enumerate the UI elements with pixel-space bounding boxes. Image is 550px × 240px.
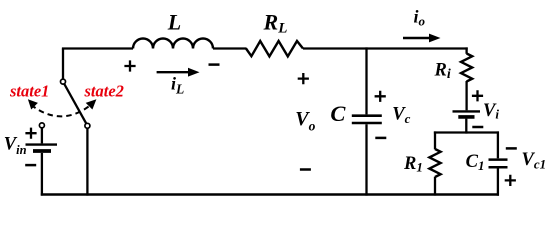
svg-text:Ri: Ri bbox=[434, 61, 451, 83]
label - V_in bbox=[25, 164, 36, 167]
resistor R_1 bbox=[429, 149, 440, 177]
svg-text:R1: R1 bbox=[403, 154, 423, 174]
wire bottom rail bbox=[41, 193, 499, 196]
switch state2 contact circle bbox=[85, 123, 90, 128]
switch common contact circle bbox=[61, 79, 66, 84]
svg-text:C1: C1 bbox=[466, 152, 485, 173]
resistor R_i bbox=[461, 54, 472, 82]
label + V_i bbox=[472, 90, 483, 101]
arrowhead toward state2 bbox=[86, 99, 97, 109]
arrowhead toward state1 bbox=[28, 99, 38, 109]
wire top rail right bbox=[303, 47, 468, 49]
svg-text:Vc1: Vc1 bbox=[522, 150, 547, 172]
label - V_i bbox=[472, 126, 483, 129]
svg-text:Vin: Vin bbox=[4, 135, 27, 158]
battery V_i negative plate bbox=[458, 115, 474, 119]
wire capacitor C branch bottom bbox=[365, 124, 367, 195]
battery V_in negative plate bbox=[33, 149, 51, 153]
label - V_c bbox=[375, 137, 386, 140]
svg-text:RL: RL bbox=[263, 10, 288, 37]
svg-text:state1: state1 bbox=[9, 81, 49, 100]
wire sub rail bbox=[434, 131, 499, 133]
capacitor C_1 bottom plate bbox=[489, 166, 508, 169]
wire capacitor C branch top bbox=[365, 47, 367, 114]
capacitor C bottom plate bbox=[352, 122, 382, 125]
wire state2 contact to bottom rail bbox=[86, 128, 88, 195]
wire top rail corner down to R_i bbox=[465, 47, 467, 53]
label + inductor polarity bbox=[124, 60, 135, 71]
wire state1 contact to battery bbox=[41, 128, 43, 144]
label + V_c1 bbox=[505, 175, 516, 186]
dashed arc switch motion bbox=[31, 105, 91, 117]
wire inductor to R_L bbox=[213, 47, 247, 49]
capacitor C top plate bbox=[352, 114, 382, 117]
wire capacitor C_1 to bottom rail bbox=[497, 169, 499, 196]
switch blade bbox=[64, 84, 86, 123]
wire top rail left bbox=[62, 47, 133, 49]
svg-text:state2: state2 bbox=[84, 81, 124, 100]
svg-text:Vc: Vc bbox=[392, 105, 410, 127]
label - V_o bbox=[300, 168, 311, 171]
label - V_c1 bbox=[506, 147, 517, 150]
label - inductor polarity bbox=[209, 63, 220, 66]
switch state1 contact circle bbox=[39, 123, 44, 128]
wire R_1 to bottom rail bbox=[434, 177, 436, 196]
svg-text:Vi: Vi bbox=[483, 101, 499, 122]
battery V_in positive plate bbox=[26, 143, 58, 145]
capacitor C_1 top plate bbox=[489, 158, 508, 161]
arrow i_L bbox=[157, 68, 200, 77]
inductor L bbox=[133, 39, 213, 49]
battery V_i positive plate bbox=[453, 110, 481, 112]
wire R_i to battery V_i bbox=[465, 81, 467, 110]
svg-text:C: C bbox=[330, 101, 346, 126]
wire sub rail to R_1 bbox=[434, 131, 436, 149]
label + V_o bbox=[298, 73, 309, 84]
arrow i_o bbox=[403, 34, 441, 43]
svg-text:io: io bbox=[414, 7, 426, 29]
wire battery V_in to bottom rail bbox=[41, 153, 43, 196]
svg-text:L: L bbox=[167, 10, 181, 35]
wire battery V_i to sub rail bbox=[465, 119, 467, 134]
svg-text:iL: iL bbox=[171, 74, 184, 97]
svg-text:Vo: Vo bbox=[295, 108, 315, 134]
label + V_in bbox=[25, 128, 36, 139]
resistor R_L bbox=[246, 41, 303, 56]
wire sub rail to capacitor C_1 bbox=[497, 131, 499, 158]
wire switch common vertical bbox=[62, 49, 64, 80]
label + V_c bbox=[375, 91, 386, 102]
